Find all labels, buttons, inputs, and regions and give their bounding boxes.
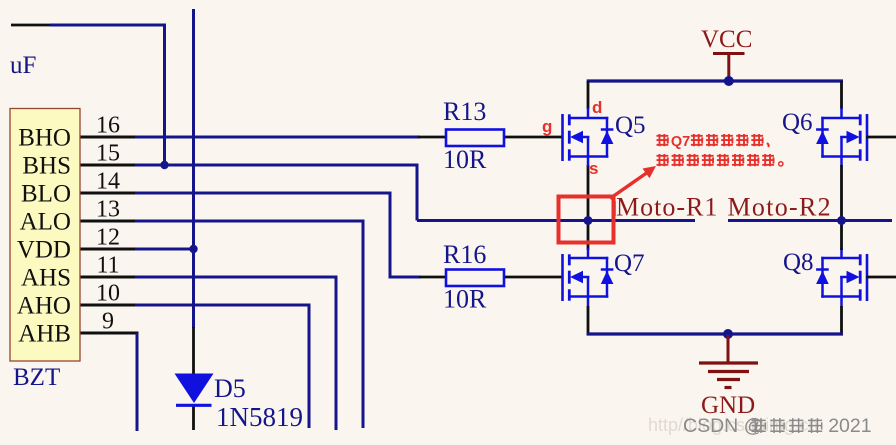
transistor Q6 (mirrored) [816, 108, 867, 167]
label VCC [701, 26, 752, 53]
capacitor pin stub (top left) [11, 24, 52, 27]
svg-text:BHS: BHS [22, 153, 71, 180]
wire Q7 drain from Moto-R1 node [587, 221, 590, 250]
IC pin 12 (VDD) stub [80, 248, 137, 251]
pin name AHB [18, 321, 71, 348]
svg-text:AHS: AHS [21, 265, 71, 292]
label BZT [13, 364, 60, 391]
svg-text:s: s [589, 159, 598, 178]
svg-text:Q7: Q7 [614, 250, 645, 277]
pin number 10 [96, 281, 120, 307]
wire BHO net (pin16 to R13) [135, 136, 420, 139]
label Q7 [614, 250, 645, 277]
wire AHO net (pin10 down) [135, 305, 309, 428]
svg-text:1N5819: 1N5819 [216, 402, 303, 432]
transistor Q7 [563, 248, 614, 307]
svg-text:AHO: AHO [17, 293, 71, 320]
pin number 14 [96, 169, 120, 195]
ground symbol GND [699, 335, 758, 388]
svg-text:10R: 10R [443, 145, 487, 174]
IC pin 11 (AHS) stub [80, 276, 137, 279]
pin number 12 [96, 225, 120, 251]
svg-text:CSDN @: CSDN @ [683, 415, 763, 437]
svg-text:10R: 10R [443, 285, 487, 314]
svg-text:d: d [592, 98, 602, 117]
svg-text:15: 15 [96, 141, 120, 167]
svg-text:Q6: Q6 [782, 109, 813, 136]
svg-text:Q7: Q7 [671, 134, 690, 150]
pin number 16 [96, 113, 120, 139]
label Q6 [782, 109, 813, 136]
diode D5 [175, 374, 214, 406]
label Moto-R1 [616, 193, 718, 222]
wire VDD net (pin12 to vertical) [135, 248, 194, 251]
pin number 9 [102, 309, 114, 335]
wire Q5 source to Moto-R1 node [587, 165, 590, 220]
wire Moto-R2 net [728, 219, 892, 222]
svg-text:2021: 2021 [828, 415, 871, 437]
value 1N5819 [216, 402, 303, 432]
pin name AHS [21, 265, 71, 292]
svg-text:11: 11 [96, 253, 119, 279]
svg-text:Q8: Q8 [783, 249, 814, 276]
value 10R (R16) [443, 285, 487, 314]
pin name BLO [21, 181, 71, 208]
watermark CSDN [683, 415, 872, 437]
pin number 11 [96, 253, 119, 279]
power symbol VCC [713, 54, 745, 81]
label Q5 [615, 112, 646, 139]
wire GND bottom rail [587, 332, 843, 335]
resistor R13 pins [418, 136, 562, 139]
value 10R (R13) [443, 145, 487, 174]
wire rail corner down to Q6 drain [840, 81, 843, 109]
label Q8 [783, 249, 814, 276]
transistor Q5 [563, 108, 614, 167]
annotation text line 1: dang Q7 dao tong de shi hou, [657, 134, 769, 150]
junction dot Moto-R2 node [837, 216, 846, 225]
pin label d (Q5 drain) [592, 98, 602, 117]
resistor R16 pins [419, 276, 562, 279]
wire Moto-R1 net [417, 219, 695, 222]
svg-text:13: 13 [96, 197, 120, 223]
junction dot VDD [189, 245, 197, 253]
label D5 [214, 374, 246, 403]
label Moto-R2 [728, 193, 832, 222]
pin name BHO [18, 125, 71, 152]
pin name AHO [17, 293, 71, 320]
svg-text:BHO: BHO [18, 125, 71, 152]
annotation text line 2: zhe ge dian jiu shi can kao di. [657, 154, 783, 166]
pin label s (Q5 source) [589, 159, 598, 178]
wire AHB net (pin9 down) [80, 333, 139, 431]
junction dot Moto-R1 node [584, 216, 593, 225]
label GND [701, 392, 755, 419]
pin name VDD [17, 237, 71, 264]
pin number 13 [96, 197, 120, 223]
svg-text:VDD: VDD [17, 237, 71, 264]
svg-text:Q5: Q5 [615, 112, 646, 139]
resistor R16 [446, 270, 504, 287]
svg-text:ALO: ALO [20, 209, 71, 236]
svg-text:R13: R13 [443, 97, 486, 126]
watermark ghost url [648, 415, 818, 435]
wire long vertical (VDD net) down to D5 [192, 9, 195, 328]
junction dot on BHS wire [160, 161, 168, 169]
pin label g (Q5 gate) [542, 117, 552, 136]
svg-text:10: 10 [96, 281, 120, 307]
wire Q7 source to bottom rail [587, 306, 625, 334]
text cursor artifact before Moto-R1 [614, 201, 616, 216]
wire AHS net (pin11 down) [135, 277, 336, 430]
wire BLO net (pin14 to R16) [135, 193, 421, 277]
transistor Q8 (mirrored) [816, 248, 867, 307]
wire Q6 source to Moto-R2 node [840, 165, 843, 220]
wire from capacitor to vertical drop [50, 24, 166, 27]
label R16 [443, 240, 486, 269]
svg-text:12: 12 [96, 225, 120, 251]
svg-text:D5: D5 [214, 374, 246, 403]
IC pin 16 (BHO) stub [80, 136, 137, 139]
label R13 [443, 97, 486, 126]
annotation red arrow [610, 166, 656, 199]
wire VCC top rail [587, 79, 843, 82]
svg-text:BZT: BZT [13, 364, 60, 391]
svg-text:14: 14 [96, 169, 120, 195]
wire rail corner down to Q5 drain [587, 81, 590, 109]
svg-text:g: g [542, 117, 552, 136]
svg-text:VCC: VCC [701, 26, 752, 53]
wire BHS net (pin15 to Moto-R1 node) [135, 165, 417, 221]
annotation red square around Moto-R1 node [559, 197, 614, 243]
wire Q8 drain from Moto-R2 node [840, 221, 843, 250]
resistor R13 [446, 130, 504, 147]
IC sheet symbol body [10, 109, 80, 362]
svg-text:16: 16 [96, 113, 120, 139]
wire Q8 gate stub [866, 276, 896, 279]
svg-text:uF: uF [10, 52, 36, 79]
diode D5 pins [192, 327, 195, 430]
svg-text:R16: R16 [443, 240, 486, 269]
wire Q6 gate stub [866, 136, 896, 139]
svg-text:9: 9 [102, 309, 114, 335]
junction dot GND rail [723, 329, 733, 339]
IC pin 10 (AHO) stub [80, 304, 137, 307]
pin name ALO [20, 209, 71, 236]
IC pin 14 (BLO) stub [80, 192, 137, 195]
svg-text:AHB: AHB [18, 321, 71, 348]
svg-text:BLO: BLO [21, 181, 71, 208]
wire Q8 source to bottom rail [810, 306, 843, 334]
pin name BHS [22, 153, 71, 180]
IC pin 13 (ALO) stub [80, 220, 137, 223]
svg-text:Moto-R2: Moto-R2 [728, 193, 832, 222]
pin number 15 [96, 141, 120, 167]
label uF (capacitor value, cropped) [10, 52, 36, 79]
junction dot VCC on rail [724, 76, 734, 86]
wire vertical down to BHS net [163, 24, 166, 166]
svg-text:Moto-R1: Moto-R1 [616, 193, 718, 222]
IC pin 9 (AHB) stub [80, 332, 137, 335]
wire ALO net (pin13 down) [135, 221, 363, 428]
IC pin 15 (BHS) stub [80, 164, 137, 167]
